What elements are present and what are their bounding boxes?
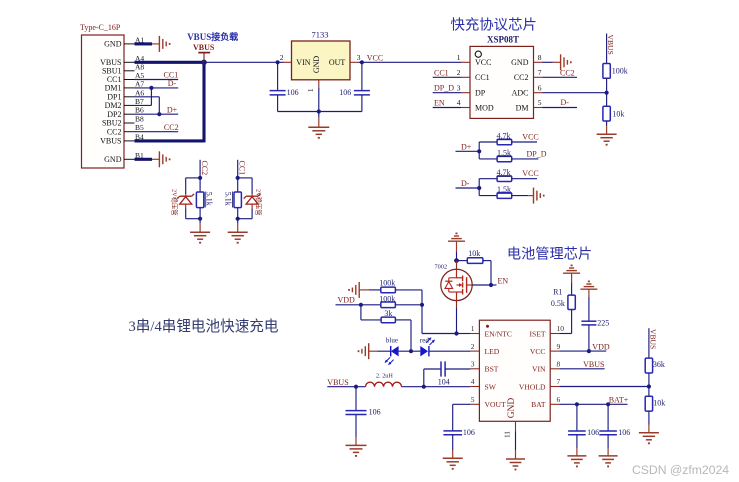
inductor L1 2.2uH [366, 373, 402, 387]
svg-text:blue: blue [386, 337, 398, 345]
ground above mosfet [448, 233, 465, 241]
connector J1 pin A5 (CC1) [107, 71, 145, 84]
svg-text:B7: B7 [135, 97, 144, 106]
wire VBUS thick A4 to node [135, 61, 205, 64]
node VBUS junction [201, 60, 207, 66]
svg-text:VBUS: VBUS [100, 137, 121, 146]
svg-text:VDD: VDD [592, 342, 610, 351]
svg-text:8: 8 [538, 53, 542, 62]
svg-text:36k: 36k [653, 360, 665, 369]
svg-text:CC2: CC2 [164, 123, 179, 132]
LED red [420, 337, 435, 357]
wire DP link vertical [158, 97, 160, 114]
svg-text:BAT+: BAT+ [609, 395, 629, 404]
svg-text:OUT: OUT [329, 58, 346, 67]
resistor 5.1k (CC2) [196, 178, 213, 208]
svg-text:4.7k: 4.7k [497, 168, 511, 177]
wire C-in bottom [277, 95, 279, 112]
svg-text:10k: 10k [653, 398, 665, 407]
svg-text:10k: 10k [612, 110, 624, 119]
wire 10k to ground [606, 121, 608, 134]
wire 10k vhold to gnd [648, 411, 650, 433]
regulator U2 pin 1 stub [307, 80, 319, 92]
title fast-charge protocol chip [451, 17, 537, 34]
resistor 4.7k (D+) [497, 131, 512, 144]
svg-text:EN: EN [434, 99, 445, 108]
wire inductor to SW [402, 386, 471, 388]
svg-text:VDD: VDD [338, 296, 356, 305]
svg-text:VCC: VCC [522, 169, 538, 178]
wire VBUS node to 7133 [204, 61, 284, 63]
U4 pin 9 (VCC) [530, 342, 561, 356]
resistor 1.5k (D+) [497, 148, 512, 161]
wire drain to 10k [457, 260, 468, 262]
svg-text:100k: 100k [379, 278, 395, 287]
wire D+ bottom branch [479, 158, 497, 160]
wire BAT row [559, 395, 629, 404]
svg-text:MOD: MOD [475, 103, 494, 112]
resistor 4.7k (D-) [497, 168, 512, 181]
connector J1 pin A7 (DM1) [105, 79, 145, 92]
ground above R1 [563, 265, 580, 273]
svg-text:VBUS: VBUS [649, 329, 658, 349]
node SW junction [422, 385, 426, 389]
svg-text:GND: GND [511, 58, 529, 67]
svg-text:SBU2: SBU2 [102, 119, 122, 128]
node D- junction [477, 179, 481, 196]
svg-text:8: 8 [557, 360, 561, 369]
svg-text:CC2: CC2 [560, 68, 575, 77]
ground at U3 pin8 [561, 54, 571, 70]
svg-text:B6: B6 [135, 106, 144, 115]
wire VBUS divider top [606, 34, 608, 64]
wire 225 to VDD node [588, 325, 590, 351]
U3 pin 2 (CC1) [457, 68, 490, 82]
power port VBUS (vhold divider) [649, 329, 658, 349]
net label VDD [336, 296, 361, 305]
svg-text:快充协议芯片: 快充协议芯片 [451, 17, 537, 34]
wire 10k to gate node [483, 261, 491, 285]
wire clamp bottom branch CC2 [186, 209, 200, 219]
net label D+ [456, 143, 480, 152]
svg-text:CC1: CC1 [475, 73, 490, 82]
node ADC divider [605, 91, 609, 95]
wire C-VBUS to gnd [355, 415, 357, 446]
svg-text:DP_D: DP_D [434, 84, 454, 93]
wire VBUS cap drop [355, 387, 357, 411]
svg-text:1: 1 [471, 324, 475, 333]
svg-text:2V稳压管: 2V稳压管 [171, 189, 180, 216]
regulator U2 pin 3 stub [350, 61, 358, 63]
wire BAT cap1 drop [576, 404, 578, 431]
capacitor C-VOUT 106 [443, 428, 475, 437]
svg-text:D-: D- [561, 98, 570, 107]
svg-text:1.5k: 1.5k [497, 185, 511, 194]
node LED junction [409, 349, 413, 353]
capacitor C-out 106 [339, 88, 370, 97]
wire U3 CC2 [543, 68, 578, 77]
svg-text:100k: 100k [379, 295, 395, 304]
svg-text:2: 2 [457, 68, 461, 77]
ground at 100k upper [349, 282, 359, 298]
wire DM link vertical [150, 88, 152, 106]
wire blue to red LED [399, 350, 421, 352]
resistor R1 0.5k [551, 287, 575, 309]
U4 pin 7 (VHOLD) [519, 377, 561, 391]
svg-text:106: 106 [618, 428, 630, 437]
net label VBUS (inductor) [327, 378, 365, 387]
svg-text:DP2: DP2 [107, 110, 121, 119]
node D+ junction [157, 112, 161, 116]
wire OUT cap drop [361, 62, 363, 90]
wire EN node to pin1 [457, 333, 471, 335]
ground at C-BAT1 [567, 456, 586, 467]
resistor 3k [381, 309, 395, 323]
wire gnd to R1 [571, 273, 573, 295]
wire gnd to drain node [456, 241, 458, 258]
svg-text:GND: GND [312, 56, 321, 74]
svg-text:A7: A7 [135, 79, 144, 88]
wire VIN pin [559, 360, 604, 369]
svg-text:VCC: VCC [475, 58, 491, 67]
svg-text:225: 225 [597, 319, 609, 328]
wire C-out bottom [361, 95, 363, 112]
svg-text:GND: GND [104, 155, 122, 164]
svg-text:DM1: DM1 [105, 84, 122, 93]
wire U3 DM [543, 98, 578, 108]
svg-text:ISET: ISET [529, 329, 545, 338]
zener diode 2V (CC1) [244, 194, 261, 209]
wire C-BAT2 gnd [607, 435, 609, 456]
svg-text:EN: EN [498, 276, 509, 285]
svg-text:VCC: VCC [367, 53, 383, 62]
svg-text:2: 2 [471, 342, 475, 351]
ground at 1.5k (D-) [534, 188, 544, 204]
wire 5.1k bottom CC1 [237, 208, 239, 219]
svg-text:B5: B5 [135, 123, 144, 132]
node 7133 VIN junction [276, 60, 280, 64]
connector J1 pin B1 (GND) [104, 151, 144, 164]
wire clamp top branch CC1 [238, 178, 252, 197]
node BAT cap2 [606, 402, 610, 406]
wire VHOLD to divider [559, 386, 649, 388]
svg-text:XSP08T: XSP08T [487, 34, 519, 44]
svg-text:0.5k: 0.5k [551, 299, 565, 308]
chip U4 battery charger body [479, 320, 550, 421]
wire gnd to blue LED [369, 350, 391, 352]
svg-text:DM: DM [516, 103, 529, 112]
node CC2 bottom junction [198, 217, 202, 221]
wire 36k to node [648, 373, 650, 396]
U4 pin 5 (VOUT) [470, 395, 506, 409]
svg-text:3k: 3k [384, 309, 392, 318]
svg-text:5.1k: 5.1k [224, 192, 233, 206]
connector J1 pin B5 (CC2) [107, 123, 144, 136]
wire BAT cap2 drop [607, 404, 609, 431]
title battery management chip [507, 247, 592, 263]
wire to EN row [422, 305, 457, 334]
svg-text:D-: D- [461, 179, 470, 188]
wire 100k upper right [395, 290, 422, 305]
svg-text:VHOLD: VHOLD [519, 382, 546, 391]
wire VBUS thick vertical [202, 61, 205, 143]
wire 100k to node [606, 78, 608, 92]
resistor 36k [645, 358, 665, 373]
wire clamp top branch CC2 [186, 178, 200, 197]
svg-text:2. 2uH: 2. 2uH [376, 373, 393, 380]
node VCC junction [360, 60, 364, 64]
ground clamp CC2 [190, 232, 210, 243]
svg-text:D-: D- [168, 79, 177, 88]
wire 104 to BST pin [445, 368, 470, 370]
svg-text:VBUS: VBUS [583, 360, 604, 369]
U3 pin 8 (GND) [511, 53, 542, 67]
svg-text:CC2: CC2 [200, 161, 209, 176]
capacitor C-VBUS 106 [346, 407, 381, 416]
U4 pin 4 (SW) [470, 377, 496, 391]
wire CC2 (B5) [135, 123, 179, 132]
wire U3 ADC [543, 92, 607, 94]
resistor 100k lower [361, 295, 396, 308]
label 2V regulator (CC1) [255, 189, 264, 216]
node gate junction [489, 283, 493, 287]
wire gnd to 225 [588, 289, 590, 321]
net label CC1 (clamp) [238, 160, 247, 178]
svg-text:red: red [420, 337, 429, 345]
svg-text:B8: B8 [135, 115, 144, 124]
wire D+ top branch [479, 141, 497, 143]
watermark CSDN [632, 463, 729, 477]
connector J1 pin A8 (SBU1) [102, 62, 144, 75]
svg-text:VIN: VIN [296, 58, 310, 67]
node BAT cap1 [575, 402, 579, 406]
svg-text:EN/NTC: EN/NTC [485, 329, 512, 338]
label 2V regulator (CC2) [171, 189, 180, 216]
svg-text:VCC: VCC [522, 132, 538, 141]
wire D- top branch [479, 178, 497, 180]
node CC2 top junction [198, 176, 202, 180]
wire source down [456, 308, 458, 334]
capacitor 225 [581, 319, 609, 328]
svg-text:VOUT: VOUT [485, 400, 506, 409]
U3 pin 1 (VCC) [457, 53, 492, 67]
wire 4.7k to VCC (D+) [512, 132, 539, 142]
wire 3k right [395, 320, 411, 351]
svg-text:LED: LED [485, 347, 500, 356]
transistor Q1 7002 [435, 261, 473, 308]
U4 pin 1 (EN/NTC) [470, 324, 512, 338]
svg-text:2V稳压管: 2V稳压管 [255, 189, 264, 216]
resistor 100k upper [379, 278, 395, 292]
svg-text:5.1k: 5.1k [205, 192, 214, 206]
svg-text:CC1: CC1 [238, 161, 247, 176]
label VBUS load title [187, 31, 238, 42]
svg-text:1: 1 [307, 88, 315, 92]
U3 pin 7 (CC2) [514, 68, 543, 82]
U4 pin 3 (BST) [470, 360, 498, 374]
U4 pin 10 (ISET) [529, 324, 564, 338]
svg-text:VIN: VIN [532, 365, 546, 374]
title 3/4 cell fast charging [129, 318, 279, 335]
wire 3k branch [361, 305, 381, 320]
wire R1 to ISET [559, 310, 571, 334]
connector J1 pin A1 (GND) [104, 35, 144, 48]
capacitor C-in 106 [270, 88, 299, 97]
wire CC1 (A5) [135, 71, 179, 80]
svg-text:ADC: ADC [512, 89, 529, 98]
wire VBUS thick B4 [135, 139, 205, 142]
wire VCC to U3 pin1 [362, 61, 462, 63]
svg-text:1: 1 [457, 53, 461, 62]
svg-text:106: 106 [463, 428, 475, 437]
ground at C-BAT2 [599, 456, 618, 467]
svg-text:5: 5 [538, 98, 542, 107]
zener diode 2V (CC2) [177, 194, 194, 209]
wire 100k lower right [395, 304, 422, 306]
wire BST branch [424, 369, 441, 387]
svg-text:D+: D+ [167, 105, 178, 114]
ground at U4 pin11 [506, 459, 525, 470]
svg-text:电池管理芯片: 电池管理芯片 [507, 247, 592, 263]
wire C-BAT1 gnd [576, 435, 578, 456]
connector J1 Type-C_16P body [80, 23, 124, 168]
node CC1 bottom junction [236, 217, 240, 221]
capacitor C-BAT1 106 [568, 428, 599, 437]
svg-text:BST: BST [485, 365, 499, 374]
svg-text:6: 6 [538, 83, 542, 92]
svg-text:5: 5 [471, 395, 475, 404]
node VDD junction [359, 303, 363, 307]
svg-text:7: 7 [538, 68, 542, 77]
svg-text:3: 3 [457, 83, 461, 92]
svg-text:CSDN @zfm2024: CSDN @zfm2024 [632, 463, 729, 477]
connector J1 pin A4 (VBUS) [100, 54, 144, 67]
svg-text:GND: GND [507, 398, 517, 419]
connector J1 pin B8 (SBU2) [102, 115, 144, 128]
node 100k junction [420, 303, 424, 307]
wire D- (A7) [135, 79, 179, 88]
ground above 225 [580, 281, 597, 289]
wire 7133 GND pin down [318, 88, 320, 112]
svg-text:6: 6 [557, 395, 561, 404]
wire 7133 OUT [358, 61, 362, 63]
net label VCC [367, 53, 383, 62]
resistor 10k (divider) [603, 106, 625, 121]
net label CC2 (clamp) [200, 160, 209, 178]
svg-text:DP_D: DP_D [527, 149, 547, 158]
U3 pin 3 (DP) [457, 83, 486, 97]
ground under vhold divider [639, 433, 659, 444]
svg-text:11: 11 [504, 431, 512, 438]
wire D+ (B6) [135, 105, 179, 114]
svg-text:2: 2 [280, 53, 284, 62]
svg-text:DP: DP [475, 89, 486, 98]
net label EN (gate) [491, 276, 508, 285]
wire DP1 (A6) [135, 96, 160, 98]
svg-text:SBU1: SBU1 [102, 66, 122, 75]
wire U3 EN [433, 99, 461, 108]
svg-text:104: 104 [438, 378, 450, 387]
svg-text:VBUS: VBUS [327, 378, 348, 387]
svg-text:CC2: CC2 [514, 73, 529, 82]
node D+ junction [477, 142, 481, 159]
svg-text:DM2: DM2 [105, 101, 122, 110]
op-chip U3 XSP08T body [470, 34, 534, 118]
svg-text:106: 106 [287, 88, 299, 97]
connector J1 pin B6 (DP2) [107, 106, 144, 119]
svg-text:Type-C_16P: Type-C_16P [80, 23, 121, 32]
capacitor C-BST 104 [438, 361, 450, 386]
wire node to 10k [606, 93, 608, 107]
node CC1 top junction [236, 176, 240, 180]
node VHOLD divider [647, 384, 651, 388]
node D- junction [149, 86, 153, 90]
svg-text:3: 3 [471, 360, 475, 369]
U4 pin 11 stub [504, 421, 516, 459]
svg-text:R1: R1 [553, 287, 562, 296]
svg-text:SW: SW [485, 382, 497, 391]
ground at C-VOUT [443, 458, 463, 469]
svg-text:10: 10 [557, 324, 565, 333]
wire B1 GND stub [135, 158, 160, 161]
svg-text:BAT: BAT [531, 400, 546, 409]
svg-text:VCC: VCC [530, 347, 546, 356]
svg-text:4: 4 [471, 377, 475, 386]
wire gnd rail [278, 111, 362, 113]
ground under divider [597, 134, 617, 145]
wire 1.5k to DP_D [512, 149, 547, 159]
svg-text:3: 3 [357, 53, 361, 62]
svg-text:7002: 7002 [435, 264, 448, 271]
svg-text:CC1: CC1 [434, 68, 449, 77]
svg-text:VBUS: VBUS [606, 35, 615, 55]
connector J1 pin B7 (DM2) [105, 97, 144, 110]
svg-text:7: 7 [557, 377, 561, 386]
resistor 5.1k (CC1) [224, 178, 242, 208]
connector J1 pin A6 (DP1) [107, 88, 144, 101]
resistor 10k (gate) [467, 249, 483, 263]
U4 pin 2 (LED) [470, 342, 499, 356]
wire A1 GND stub [135, 42, 160, 45]
svg-text:VBUS: VBUS [193, 43, 215, 52]
wire VOUT branch [453, 404, 471, 431]
svg-text:VBUS接负载: VBUS接负载 [187, 31, 238, 42]
wire rail to ground [318, 112, 320, 128]
wire clamp to ground CC2 [199, 219, 201, 233]
U4 pin 6 (BAT) [531, 395, 560, 409]
regulator U2 7133 body [280, 30, 361, 80]
ground clamp CC1 [228, 232, 248, 243]
wire VCC pin to VDD [559, 342, 610, 351]
connector J1 pin B4 (VBUS) [100, 132, 144, 145]
wire 5.1k bottom CC2 [199, 208, 201, 219]
ground at pin A1 [159, 36, 169, 52]
svg-text:7133: 7133 [312, 30, 329, 40]
svg-text:CC2: CC2 [107, 127, 122, 136]
U3 pin 5 (DM) [516, 98, 543, 112]
resistor 10k (vhold) [645, 396, 665, 411]
node gnd rail junction [317, 109, 321, 113]
svg-text:1.5k: 1.5k [497, 148, 511, 157]
power port VBUS (divider) [606, 35, 615, 55]
U4 pin 8 (VIN) [532, 360, 561, 374]
svg-text:106: 106 [339, 88, 351, 97]
node drain junction [454, 258, 459, 263]
wire gnd to 100k [359, 289, 381, 291]
svg-text:4: 4 [457, 98, 461, 107]
svg-text:9: 9 [557, 342, 561, 351]
node VDD out junction [587, 349, 591, 353]
